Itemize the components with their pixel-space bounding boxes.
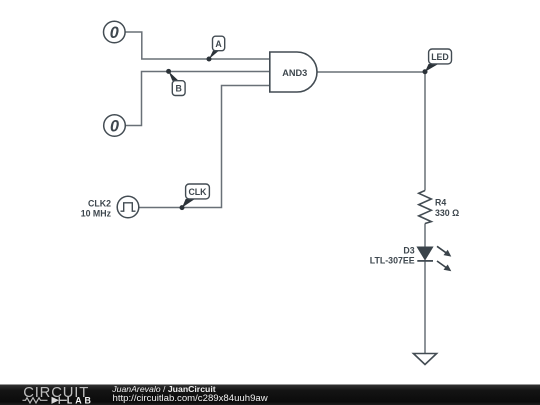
node label CLK junction dot <box>180 205 185 210</box>
svg-text:CLK2: CLK2 <box>88 199 111 209</box>
wire from source V2 to AND3 input B <box>126 72 270 126</box>
node label B pointer wedge <box>169 71 179 80</box>
resistor R4 zigzag <box>419 191 432 224</box>
wire AND3 output to LED node and down to resistor <box>317 72 425 191</box>
logo diode bar and wire <box>59 397 67 404</box>
CircuitLab logo resistor-diode symbol <box>23 398 48 403</box>
node label A box <box>213 36 225 51</box>
wire LED cathode to ground <box>424 261 426 354</box>
LED light arrow 2 <box>437 261 451 271</box>
node label B box <box>172 81 185 96</box>
AND gate U1 AND3 <box>270 52 317 92</box>
wire from CLK2 source to AND3 input C <box>139 86 270 208</box>
LED D3 cathode bar <box>417 260 433 262</box>
clock square-wave glyph <box>121 203 136 211</box>
svg-text:LTL-307EE: LTL-307EE <box>370 255 415 265</box>
node label CLK pointer wedge <box>182 199 195 208</box>
LED D3 anode triangle <box>417 247 432 260</box>
svg-text:AND3: AND3 <box>282 68 307 78</box>
svg-text:0: 0 <box>110 24 119 42</box>
svg-text:CLK: CLK <box>188 187 207 197</box>
node label LED junction dot <box>423 69 428 74</box>
node label LED box <box>429 49 452 64</box>
node label A pointer wedge <box>209 51 219 59</box>
ground symbol <box>413 354 436 365</box>
svg-text:330 Ω: 330 Ω <box>435 208 459 218</box>
digital input source V1 (logic 0) <box>104 21 126 43</box>
svg-text:D3: D3 <box>403 245 414 255</box>
node label B junction dot <box>166 69 171 74</box>
wire resistor to LED anode <box>424 224 426 248</box>
digital input source V2 (logic 0) <box>104 115 126 137</box>
svg-text:A: A <box>215 39 222 49</box>
svg-text:B: B <box>176 84 182 94</box>
wire from source V1 to AND3 input A <box>125 32 269 59</box>
svg-text:LAB: LAB <box>67 396 94 405</box>
logo diode triangle <box>52 397 60 404</box>
node label A junction dot <box>207 57 212 62</box>
footer black bar <box>0 385 540 405</box>
svg-text:LED: LED <box>431 52 449 62</box>
svg-text:0: 0 <box>110 117 119 135</box>
clock source CLK2 circle <box>117 196 139 218</box>
svg-text:R4: R4 <box>435 198 446 208</box>
svg-text:http://circuitlab.com/c289x84u: http://circuitlab.com/c289x84uuh9aw <box>113 393 268 404</box>
svg-text:10 MHz: 10 MHz <box>81 209 112 219</box>
node label LED pointer wedge <box>425 64 439 72</box>
LED light arrow 1 <box>437 246 451 256</box>
node label CLK box <box>186 184 210 199</box>
